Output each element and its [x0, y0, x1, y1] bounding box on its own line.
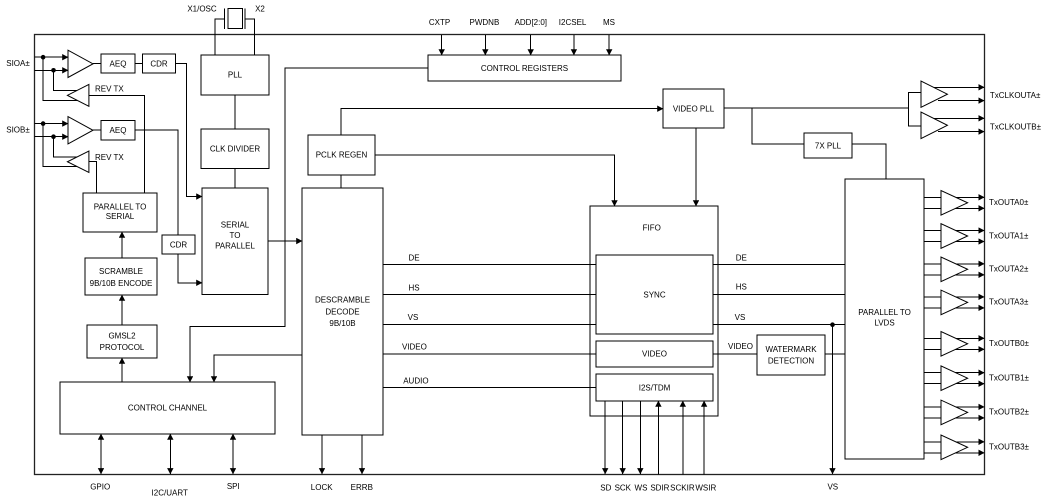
node SIOA dot upper: [41, 55, 46, 60]
wire I2C/UART bidirectional: [169, 434, 171, 474]
svg-text:TxOUTA1±: TxOUTA1±: [989, 231, 1029, 240]
CONTROL REGISTERS box: [428, 55, 621, 81]
wire TxOUTA3+: [925, 296, 985, 298]
svg-text:CDR: CDR: [150, 59, 168, 68]
svg-text:CXTP: CXTP: [429, 18, 450, 27]
svg-text:FIFO: FIFO: [643, 224, 661, 233]
wire ERRB output: [361, 435, 363, 474]
chip outer border: [35, 35, 985, 475]
PLL box: [201, 55, 269, 95]
svg-text:X2: X2: [255, 5, 265, 14]
wire WS output: [639, 401, 641, 474]
svg-text:SERIAL: SERIAL: [106, 212, 135, 221]
wire PCLK regen to video PLL: [341, 109, 663, 135]
PARALLEL TO LVDS box: [845, 179, 924, 459]
wire CXTP pin arrow: [441, 35, 443, 55]
svg-text:CLK DIVIDER: CLK DIVIDER: [210, 144, 260, 153]
svg-text:WS: WS: [635, 484, 648, 493]
SYNC box: [596, 255, 713, 334]
buffer TxCLKOUTA: [921, 81, 947, 107]
wire SIOA+ input: [35, 56, 69, 58]
wire control registers to control channel: [190, 68, 428, 382]
wire TxOUTB0-: [925, 348, 985, 350]
svg-text:AEQ: AEQ: [110, 59, 127, 68]
svg-text:ERRB: ERRB: [351, 483, 373, 492]
wire HS left: [383, 293, 596, 295]
svg-text:TO: TO: [230, 231, 241, 240]
svg-text:REV TX: REV TX: [95, 85, 124, 94]
wire VS right: [713, 324, 845, 326]
buffer REV TX A: [67, 84, 89, 106]
svg-text:HS: HS: [408, 284, 419, 293]
svg-text:PARALLEL TO: PARALLEL TO: [858, 308, 911, 317]
node VS junction dot: [830, 322, 835, 327]
svg-text:MS: MS: [603, 18, 615, 27]
svg-text:PWDNB: PWDNB: [470, 18, 500, 27]
svg-text:SYNC: SYNC: [643, 290, 665, 299]
buffer SIOB forward: [68, 117, 93, 144]
wire TxOUTA1+: [925, 230, 985, 232]
buffer TxOUTA2: [941, 257, 968, 282]
svg-text:WATERMARK: WATERMARK: [765, 345, 817, 354]
wire branch to 7X PLL: [752, 108, 804, 144]
wire TxOUTA2-: [925, 274, 985, 276]
svg-text:GPIO: GPIO: [90, 483, 110, 492]
svg-text:TxCLKOUTA±: TxCLKOUTA±: [990, 91, 1041, 100]
svg-text:DE: DE: [408, 254, 419, 263]
wire SIOB- input: [35, 136, 69, 138]
PCLK REGEN box: [308, 135, 375, 175]
svg-text:AUDIO: AUDIO: [403, 376, 428, 385]
svg-text:SCK: SCK: [615, 484, 632, 493]
wire video PLL output: [724, 107, 909, 109]
wire watermark to LVDS: [825, 353, 845, 355]
wire REV TX A output minus: [43, 57, 80, 100]
svg-text:PARALLEL TO: PARALLEL TO: [94, 202, 147, 211]
node SIOB dot lower: [51, 134, 56, 139]
wire REV TX A input from parallel-to-serial: [89, 95, 145, 193]
svg-text:9B/10B ENCODE: 9B/10B ENCODE: [90, 279, 153, 288]
wire I2CSEL pin arrow: [573, 35, 575, 55]
wire CDR A to serial-to-parallel: [176, 64, 203, 197]
svg-text:SDIR: SDIR: [650, 484, 669, 493]
crystal right plate: [244, 9, 246, 30]
VIDEO PLL box: [663, 89, 724, 128]
wire TxOUTB1-: [925, 383, 985, 385]
wire TxOUTB3+: [925, 441, 985, 443]
I2S/TDM box: [596, 374, 713, 401]
SCRAMBLE 9B/10B ENCODE box: [85, 258, 157, 295]
buffer TxOUTA3: [941, 290, 968, 315]
DESCRAMBLE DECODE 9B/10B box: [302, 188, 383, 435]
SERIAL TO PARALLEL box: [202, 188, 268, 295]
svg-text:TxOUTB3±: TxOUTB3±: [989, 443, 1030, 452]
wire CLK divider to serial-to-parallel: [234, 169, 236, 189]
wire clk buffer splitter: [909, 92, 922, 126]
svg-text:PROTOCOL: PROTOCOL: [100, 343, 145, 352]
crystal left plate: [224, 9, 226, 30]
svg-text:I2C/UART: I2C/UART: [152, 489, 188, 498]
wire gmsl2 to scramble: [121, 295, 123, 325]
7X PLL box: [804, 133, 852, 158]
buffer TxOUTA1: [941, 224, 968, 249]
svg-text:LVDS: LVDS: [874, 319, 894, 328]
svg-text:SIOA±: SIOA±: [6, 59, 30, 68]
svg-text:LOCK: LOCK: [311, 483, 333, 492]
svg-text:DESCRAMBLE: DESCRAMBLE: [315, 296, 370, 305]
wire DE left: [383, 264, 596, 266]
crystal left lead wire: [215, 19, 225, 55]
node SIOA dot lower: [51, 68, 56, 73]
wire TxOUTA0+: [925, 196, 985, 198]
AEQ B box: [101, 121, 135, 140]
WATERMARK DETECTION box: [757, 335, 825, 375]
svg-text:CONTROL CHANNEL: CONTROL CHANNEL: [128, 404, 208, 413]
wire TxCLKOUTB-: [938, 131, 984, 133]
svg-text:DE: DE: [736, 253, 747, 262]
wire LOCK output: [321, 435, 323, 474]
wire REV TX B output plus: [54, 137, 85, 157]
svg-text:VIDEO: VIDEO: [642, 350, 667, 359]
CDR B box: [162, 235, 195, 254]
svg-text:AEQ: AEQ: [110, 126, 127, 135]
wire TxCLKOUTA+: [928, 86, 984, 88]
svg-text:PLL: PLL: [228, 71, 243, 80]
buffer REV TX B: [67, 151, 89, 173]
wire MS pin arrow: [608, 35, 610, 55]
wire SPI bidirectional: [232, 434, 234, 474]
svg-text:7X PLL: 7X PLL: [815, 141, 842, 150]
svg-text:VS: VS: [408, 313, 419, 322]
wire HS right: [713, 293, 845, 295]
svg-text:SPI: SPI: [227, 482, 240, 491]
svg-text:DETECTION: DETECTION: [768, 357, 814, 366]
svg-text:VS: VS: [827, 483, 838, 492]
svg-text:VIDEO: VIDEO: [728, 342, 753, 351]
wire scramble to parallel-to-serial: [121, 232, 123, 258]
buffer TxOUTB2: [941, 400, 968, 425]
wire buffer B to AEQ B: [93, 129, 101, 131]
svg-text:VIDEO: VIDEO: [402, 343, 427, 352]
svg-text:CDR: CDR: [170, 240, 188, 249]
wire TxOUTA0-: [925, 207, 985, 209]
wire GPIO bidirectional: [100, 434, 102, 474]
wire REV TX B input from parallel-to-serial: [89, 162, 96, 194]
wire VS left: [383, 324, 596, 326]
svg-text:GMSL2: GMSL2: [108, 331, 136, 340]
buffer TxCLKOUTB: [921, 112, 947, 139]
svg-text:WSIR: WSIR: [695, 484, 716, 493]
wire TxCLKOUTA-: [938, 100, 984, 102]
svg-text:SD: SD: [600, 484, 611, 493]
svg-text:TxOUTA3±: TxOUTA3±: [989, 298, 1029, 307]
wire SDIR input: [657, 401, 659, 475]
wire VS tap to bottom pin: [832, 325, 834, 474]
wire 7X PLL to LVDS: [852, 144, 886, 179]
wire TxOUTA3-: [925, 307, 985, 309]
CDR A box: [143, 54, 176, 73]
wire TxOUTB2+: [925, 406, 985, 408]
wire serial-to-parallel to descrambler: [268, 240, 302, 242]
svg-text:TxOUTA0±: TxOUTA0±: [989, 198, 1029, 207]
wire buffer A to AEQ A: [93, 63, 101, 65]
svg-text:VS: VS: [735, 313, 746, 322]
wire SIOA- input: [35, 69, 69, 71]
svg-text:SCKIR: SCKIR: [670, 484, 695, 493]
wire AUDIO left: [383, 387, 596, 389]
wire AEQ A to CDR A: [135, 63, 143, 65]
wire AEQ B to CDR B: [135, 130, 178, 235]
svg-text:REV TX: REV TX: [95, 153, 124, 162]
wire SCK output: [622, 401, 624, 474]
FIFO box: [590, 206, 718, 416]
svg-text:HS: HS: [736, 283, 747, 292]
svg-text:VIDEO PLL: VIDEO PLL: [673, 104, 715, 113]
wire TxOUTA1-: [925, 241, 985, 243]
svg-text:I2CSEL: I2CSEL: [559, 18, 587, 27]
svg-text:I2S/TDM: I2S/TDM: [639, 383, 671, 392]
svg-text:TxCLKOUTB±: TxCLKOUTB±: [990, 123, 1042, 132]
wire TxOUTB3-: [925, 452, 985, 454]
buffer SIOA forward: [68, 50, 93, 77]
wire SD output: [604, 401, 606, 474]
buffer TxOUTB1: [941, 366, 968, 391]
wire WSIR input: [703, 401, 705, 475]
wire VIDEO to watermark: [713, 353, 757, 355]
svg-text:PARALLEL: PARALLEL: [215, 242, 255, 251]
wire CDR B to serial-to-parallel: [178, 254, 202, 283]
svg-text:CONTROL REGISTERS: CONTROL REGISTERS: [481, 64, 568, 73]
wire DE right: [713, 264, 845, 266]
wire REV TX A output plus: [54, 70, 85, 90]
svg-text:TxOUTB2±: TxOUTB2±: [989, 408, 1030, 417]
wire ADD[2:0] pin arrow: [530, 35, 532, 55]
svg-text:ADD[2:0]: ADD[2:0]: [515, 18, 547, 27]
wire descrambler to control channel: [214, 355, 302, 382]
PARALLEL TO SERIAL box: [83, 193, 157, 232]
svg-text:SCRAMBLE: SCRAMBLE: [99, 267, 143, 276]
svg-text:X1/OSC: X1/OSC: [187, 5, 217, 14]
svg-text:9B/10B: 9B/10B: [329, 319, 355, 328]
buffer TxOUTB0: [941, 332, 968, 357]
wire REV TX B output minus: [43, 124, 80, 167]
svg-text:TxOUTA2±: TxOUTA2±: [989, 265, 1029, 274]
wire video PLL to FIFO: [695, 128, 697, 206]
AEQ A box: [101, 54, 135, 73]
wire TxCLKOUTB+: [928, 117, 984, 119]
svg-text:SIOB±: SIOB±: [6, 126, 30, 135]
wire TxOUTB1+: [925, 372, 985, 374]
wire control channel to gmsl2: [121, 358, 123, 382]
CLK DIVIDER box: [201, 129, 269, 169]
buffer TxOUTB3: [941, 435, 968, 460]
crystal rectangle: [228, 8, 243, 28]
CONTROL CHANNEL box: [60, 382, 275, 434]
wire TxOUTA2+: [925, 263, 985, 265]
crystal right lead wire: [245, 19, 255, 55]
buffer TxOUTA0: [941, 191, 968, 216]
node SIOB dot upper: [41, 121, 46, 126]
wire TxOUTB2-: [925, 417, 985, 419]
wire PLL to CLK divider: [234, 95, 236, 129]
svg-text:PCLK REGEN: PCLK REGEN: [316, 151, 368, 160]
svg-text:TxOUTB1±: TxOUTB1±: [989, 374, 1030, 383]
GMSL2 PROTOCOL box: [87, 325, 157, 358]
wire PWDNB pin arrow: [484, 35, 486, 55]
wire PCLK regen to FIFO: [375, 155, 615, 206]
svg-text:DECODE: DECODE: [325, 308, 359, 317]
VIDEO box: [596, 341, 713, 367]
wire SCKIR input: [682, 401, 684, 475]
wire PCLK regen to descrambler: [340, 175, 342, 188]
svg-text:SERIAL: SERIAL: [221, 221, 250, 230]
wire SIOB+ input: [35, 123, 69, 125]
svg-text:TxOUTB0±: TxOUTB0±: [989, 339, 1030, 348]
wire VIDEO left: [383, 353, 596, 355]
wire TxOUTB0+: [925, 337, 985, 339]
